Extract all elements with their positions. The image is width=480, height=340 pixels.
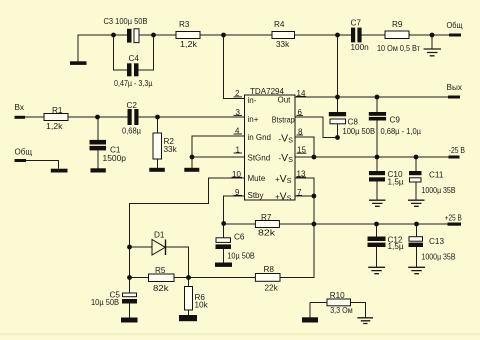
svg-text:R3: R3 — [179, 20, 190, 29]
svg-text:C13: C13 — [429, 237, 444, 246]
svg-text:StGnd: StGnd — [248, 154, 271, 163]
svg-text:Вых: Вых — [447, 83, 463, 92]
svg-text:C9: C9 — [390, 116, 401, 125]
svg-text:C3 100µ 50В: C3 100µ 50В — [104, 17, 148, 26]
svg-text:C11: C11 — [429, 171, 444, 180]
svg-text:3,3 Ом: 3,3 Ом — [330, 306, 353, 315]
svg-text:1,2k: 1,2k — [46, 122, 63, 131]
svg-text:R8: R8 — [264, 265, 275, 274]
svg-text:C7: C7 — [351, 19, 362, 28]
svg-text:10 Ом 0,5 Вт: 10 Ом 0,5 Вт — [377, 44, 420, 53]
svg-text:4: 4 — [235, 127, 240, 136]
svg-text:in-: in- — [248, 96, 257, 105]
svg-text:1,2k: 1,2k — [180, 40, 198, 49]
svg-text:6: 6 — [298, 108, 303, 117]
svg-text:10µ 50В: 10µ 50В — [91, 298, 119, 307]
svg-text:0,68µ: 0,68µ — [122, 127, 141, 136]
svg-text:Mute: Mute — [248, 174, 266, 183]
svg-text:R9: R9 — [392, 20, 403, 29]
svg-text:R1: R1 — [52, 106, 63, 115]
svg-text:C8: C8 — [348, 118, 359, 127]
svg-text:C2: C2 — [127, 101, 138, 110]
svg-text:22k: 22k — [265, 284, 279, 293]
svg-text:1000µ 35В: 1000µ 35В — [422, 253, 456, 262]
svg-text:15: 15 — [297, 146, 306, 155]
svg-text:R7: R7 — [261, 213, 272, 222]
svg-text:in Gnd: in Gnd — [248, 133, 272, 142]
svg-text:9: 9 — [235, 188, 240, 197]
svg-text:100µ 50В: 100µ 50В — [343, 127, 376, 136]
svg-text:Btstrap: Btstrap — [272, 116, 295, 125]
svg-text:7: 7 — [297, 188, 302, 197]
svg-text:R5: R5 — [155, 266, 166, 275]
svg-text:R4: R4 — [274, 20, 285, 29]
svg-text:2: 2 — [235, 89, 240, 98]
svg-text:33k: 33k — [164, 145, 178, 154]
svg-text:14: 14 — [297, 89, 306, 98]
svg-text:1: 1 — [236, 146, 241, 155]
svg-text:33k: 33k — [276, 40, 290, 49]
svg-text:R10: R10 — [330, 291, 345, 300]
svg-text:10µ 50В: 10µ 50В — [227, 252, 255, 261]
svg-text:C6: C6 — [234, 233, 245, 242]
svg-text:1,5µ: 1,5µ — [388, 242, 404, 251]
svg-text:3: 3 — [236, 108, 241, 117]
svg-text:Stby: Stby — [248, 191, 264, 200]
svg-text:10: 10 — [232, 170, 241, 179]
svg-text:1500p: 1500p — [103, 154, 127, 163]
svg-text:-25 В: -25 В — [449, 146, 466, 155]
svg-text:0,68µ - 1,0µ: 0,68µ - 1,0µ — [381, 127, 422, 136]
svg-text:100n: 100n — [351, 43, 370, 52]
svg-text:13: 13 — [297, 170, 306, 179]
svg-text:1000µ 35В: 1000µ 35В — [422, 186, 456, 195]
svg-text:C4: C4 — [129, 54, 140, 63]
svg-text:in+: in+ — [248, 115, 259, 124]
svg-text:Общ: Общ — [15, 148, 33, 157]
svg-text:+25 В: +25 В — [445, 214, 462, 223]
svg-text:Out: Out — [278, 96, 292, 105]
svg-text:Общ: Общ — [447, 21, 463, 30]
svg-text:10k: 10k — [195, 301, 209, 310]
svg-text:Вх: Вх — [15, 103, 24, 112]
svg-text:82k: 82k — [153, 284, 170, 293]
svg-text:8: 8 — [298, 127, 303, 136]
svg-text:0,47µ - 3,3µ: 0,47µ - 3,3µ — [114, 79, 153, 88]
svg-text:D1: D1 — [154, 231, 165, 240]
svg-text:1,5µ: 1,5µ — [388, 178, 404, 187]
svg-text:82k: 82k — [258, 229, 276, 238]
